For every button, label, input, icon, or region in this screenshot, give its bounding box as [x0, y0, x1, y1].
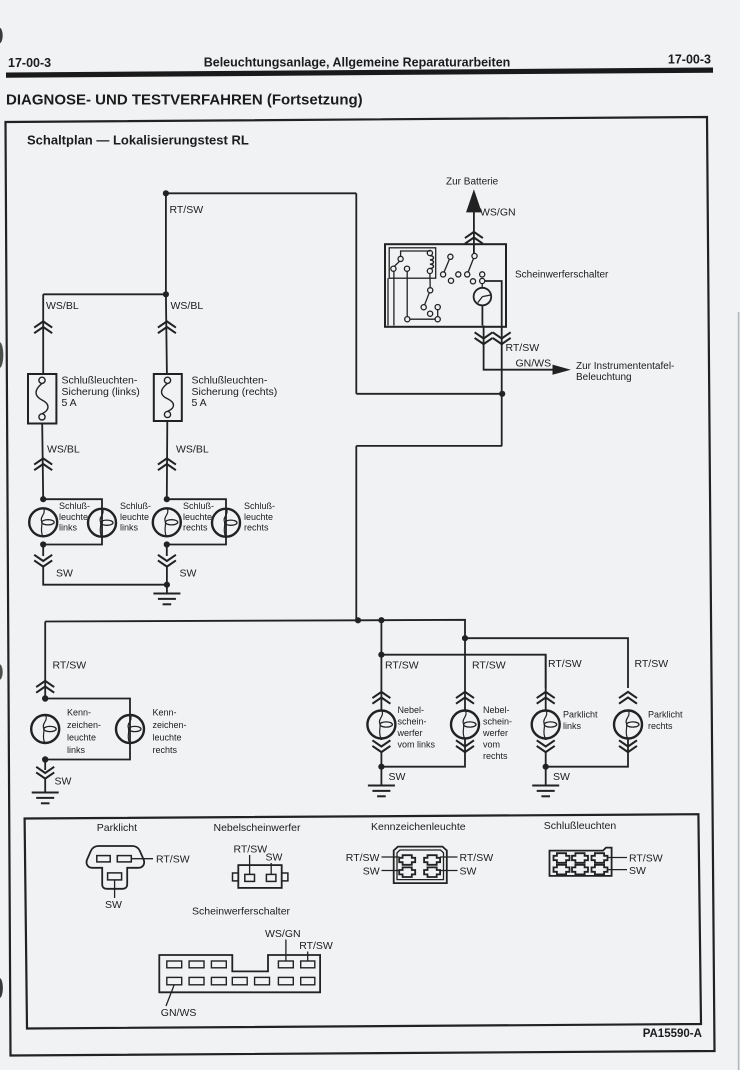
relay contact circles: [398, 256, 403, 261]
connector chevron down nebel links: [372, 740, 390, 752]
connector switch bottom pin 2: [189, 977, 204, 984]
svg-text:WS/GN: WS/GN: [480, 207, 516, 219]
wire nebel ground stem: [380, 767, 382, 786]
wire jog lower horizontal: [356, 445, 502, 447]
node lamp1 bottom: [40, 541, 46, 547]
lead kennzeichen left RT/SW: [382, 856, 400, 858]
connector schluss pin 5: [572, 865, 588, 875]
svg-text:Sicherung (links): Sicherung (links): [62, 386, 140, 398]
lamp parklicht links: [532, 711, 560, 739]
connector chevron nebel rechts: [456, 692, 474, 704]
wire branch2 to ground: [166, 566, 168, 593]
connector schluss pin 6: [592, 865, 608, 875]
svg-text:Kenn-: Kenn-: [67, 708, 91, 718]
relay top wire: [401, 251, 430, 257]
connector chevron parklicht links: [537, 692, 555, 704]
svg-text:SW: SW: [553, 771, 570, 783]
connector chevron below F1: [34, 458, 52, 470]
inner connector frame: [25, 814, 701, 1028]
wire branch1 to ground bus: [43, 566, 167, 585]
connector nebel housing: [238, 865, 281, 888]
node jog: [499, 391, 505, 397]
arrow to battery: [467, 192, 480, 231]
connector schluss pin 2: [572, 853, 588, 863]
connector parklicht housing: [87, 846, 145, 889]
connector nebel pin 1: [245, 874, 255, 881]
connector switch housing: [159, 955, 320, 992]
wire parklicht bottom: [546, 738, 628, 766]
svg-text:17-00-3: 17-00-3: [668, 53, 711, 67]
svg-text:PA15590-A: PA15590-A: [643, 1028, 702, 1040]
svg-text:WS/BL: WS/BL: [47, 444, 80, 456]
lamp kennzeichen links: [31, 715, 59, 743]
node ground bus: [164, 582, 170, 588]
svg-text:RT/SW: RT/SW: [156, 854, 190, 866]
connector chevron kennzeichen: [36, 681, 54, 693]
wire to panel lamp: [481, 284, 483, 288]
svg-text:Sicherung (rechts): Sicherung (rechts): [192, 386, 278, 398]
wire switch left exit: [483, 326, 485, 346]
svg-text:Schlußleuchten: Schlußleuchten: [544, 820, 617, 832]
lamp kennzeichen rechts: [116, 715, 144, 743]
node branch link: [163, 291, 169, 297]
svg-text:links: links: [563, 721, 582, 731]
svg-text:vom: vom: [483, 740, 500, 750]
svg-text:werfer: werfer: [482, 728, 508, 738]
svg-text:Schluß-: Schluß-: [59, 501, 90, 511]
svg-text:DIAGNOSE- UND TESTVERFAHREN (F: DIAGNOSE- UND TESTVERFAHREN (Fortsetzung…: [6, 92, 363, 109]
wire parklicht links drop: [545, 655, 547, 711]
svg-text:RT/SW: RT/SW: [385, 660, 419, 672]
svg-text:Kennzeichenleuchte: Kennzeichenleuchte: [371, 821, 466, 833]
connector switch top pin 3: [211, 961, 226, 968]
binder hole 2: [0, 342, 3, 368]
binder hole 4: [0, 978, 3, 998]
connector schluss pin 3: [592, 853, 608, 863]
lead parklicht RT/SW: [132, 858, 154, 860]
wire bus1: [45, 620, 465, 638]
connector switch bottom pin 6: [278, 977, 293, 984]
contact pair bottom right: [435, 317, 440, 322]
lamp pair kennzeichen loop: [45, 699, 130, 771]
lead kennzeichen left SW: [382, 870, 400, 872]
connector schluss pin 4: [554, 865, 570, 875]
svg-text:5 A: 5 A: [192, 397, 207, 409]
svg-text:RT/SW: RT/SW: [299, 940, 333, 952]
svg-text:RT/SW: RT/SW: [629, 853, 663, 865]
lead parklicht SW: [114, 880, 116, 898]
right output wire: [485, 281, 502, 326]
fuse F1: [28, 374, 56, 424]
connector parklicht pin 1: [97, 856, 110, 862]
svg-text:Nebel-: Nebel-: [398, 705, 425, 715]
node parklicht ground: [543, 764, 549, 770]
svg-text:Schluß-: Schluß-: [183, 501, 214, 511]
svg-text:GN/WS: GN/WS: [516, 358, 552, 370]
connector nebel tab right: [282, 873, 288, 881]
svg-text:schein-: schein-: [483, 717, 512, 727]
connector chevron branch1 upper: [34, 321, 52, 333]
svg-text:Zur Instrumententafel-: Zur Instrumententafel-: [576, 361, 674, 372]
connector switch top pin 1: [167, 961, 182, 968]
wire parklicht ground stem: [545, 767, 547, 786]
wire branch2 fuse to lamps: [166, 421, 169, 499]
svg-text:SW: SW: [460, 866, 477, 878]
svg-text:RT/SW: RT/SW: [346, 852, 380, 864]
wire RT/SW switch drop: [501, 345, 503, 446]
wire left column vertical: [165, 193, 167, 294]
wire bus3: [381, 655, 545, 688]
node kennzeichen top: [42, 695, 48, 701]
relay coil: [427, 250, 432, 255]
connector switch bottom pin 5: [255, 977, 270, 984]
wire branch link horizontal: [43, 293, 166, 295]
wire nebel links drop: [380, 620, 382, 711]
connector chevron down nebel rechts: [456, 740, 474, 752]
svg-text:RT/SW: RT/SW: [170, 204, 204, 216]
connector nebel tab left: [233, 873, 239, 881]
wire top RT/SW horizontal: [166, 192, 356, 194]
svg-text:Zur Batterie: Zur Batterie: [446, 177, 499, 188]
svg-text:links: links: [59, 523, 78, 533]
svg-text:WS/BL: WS/BL: [46, 300, 79, 312]
wire branch1 upper: [42, 294, 44, 374]
svg-text:Parklicht: Parklicht: [97, 822, 137, 834]
svg-text:Scheinwerferschalter: Scheinwerferschalter: [192, 906, 291, 918]
svg-text:RT/SW: RT/SW: [548, 658, 582, 670]
svg-text:Parklicht: Parklicht: [563, 710, 598, 720]
wire branch2 upper: [166, 294, 167, 374]
connector chevron below F2: [158, 458, 176, 470]
connector switch top pin 5: [301, 961, 315, 968]
svg-text:WS/GN: WS/GN: [265, 928, 301, 940]
wire coil to lower contact: [429, 274, 431, 288]
wire switch right exit: [501, 326, 503, 346]
lamp pair Schlussleuchte rechts loop: [167, 499, 226, 556]
svg-text:SW: SW: [266, 852, 283, 864]
connector kennzeichen pin 1: [399, 855, 415, 865]
connector switch bottom pin 4: [232, 977, 247, 984]
lamp Schlussleuchte rechts L3: [153, 508, 181, 536]
svg-text:SW: SW: [363, 866, 380, 878]
wire GN/WS to panel: [484, 343, 553, 370]
svg-text:SW: SW: [180, 568, 197, 580]
lead schluss SW: [608, 869, 628, 871]
binder hole 3: [0, 664, 3, 680]
connector switch bottom pin 3: [211, 977, 226, 984]
svg-text:zeichen-: zeichen-: [67, 720, 101, 730]
lamp pair Schlussleuchte links loop: [43, 499, 102, 556]
wire kennzeichen ground: [44, 778, 46, 792]
connector chevron battery: [465, 232, 483, 244]
svg-text:SW: SW: [629, 865, 646, 877]
node bus feed: [355, 617, 361, 623]
connector chevron down branch1: [34, 555, 52, 567]
svg-text:Schaltplan — Lokalisierungstes: Schaltplan — Lokalisierungstest RL: [27, 133, 249, 148]
svg-text:RT/SW: RT/SW: [234, 844, 268, 856]
svg-text:werfer: werfer: [397, 728, 423, 738]
svg-text:rechts: rechts: [648, 721, 673, 731]
svg-text:leuchte: leuchte: [183, 512, 212, 522]
connector chevron down switch right: [493, 332, 511, 344]
lower slant contact: [428, 288, 433, 293]
svg-text:schein-: schein-: [398, 717, 427, 727]
svg-text:Beleuchtungsanlage, Allgemeine: Beleuchtungsanlage, Allgemeine Reparatur…: [204, 56, 511, 70]
svg-text:vom links: vom links: [398, 740, 436, 750]
wire feed vertical lower: [355, 446, 357, 620]
svg-text:rechts: rechts: [483, 751, 508, 761]
svg-text:rechts: rechts: [153, 745, 178, 755]
feed contact M2: [472, 253, 477, 258]
svg-text:rechts: rechts: [183, 523, 208, 533]
svg-text:Scheinwerferschalter: Scheinwerferschalter: [515, 270, 609, 281]
lamp parklicht rechts: [614, 711, 642, 739]
connector chevron down kennzeichen: [36, 767, 54, 779]
svg-text:Schlußleuchten-: Schlußleuchten-: [62, 375, 138, 387]
svg-text:RT/SW: RT/SW: [472, 660, 506, 672]
connector chevron parklicht rechts: [619, 692, 637, 704]
svg-text:SW: SW: [55, 776, 72, 788]
svg-text:leuchte: leuchte: [153, 733, 182, 743]
bottom horizontal link: [410, 318, 435, 320]
lamp to box bottom: [481, 305, 483, 325]
svg-text:Schluß-: Schluß-: [244, 501, 275, 511]
wire branch1 fuse to lamps: [42, 424, 43, 500]
switch internals: [388, 248, 502, 326]
ground G3: [368, 786, 395, 797]
lead switch RT/SW: [307, 952, 309, 962]
relay armature: [394, 261, 399, 266]
connector kennzeichen pin 4: [424, 867, 440, 877]
lead nebel RT/SW: [249, 855, 251, 874]
svg-text:Nebel-: Nebel-: [483, 705, 510, 715]
svg-text:leuchte: leuchte: [120, 512, 149, 522]
svg-text:GN/WS: GN/WS: [161, 1007, 197, 1019]
panel illumination lamp: [474, 288, 492, 306]
connector parklicht pin 2: [117, 856, 131, 862]
op switch box U1: [385, 244, 506, 327]
node bus2: [462, 635, 468, 641]
wire from relay right contact down: [406, 271, 408, 316]
contact circle lower left: [405, 317, 410, 322]
lamp feed circles: [470, 279, 475, 284]
middle contact extra circles: [456, 272, 461, 277]
svg-text:RT/SW: RT/SW: [635, 658, 669, 670]
lead kennzeichen right SW: [440, 870, 458, 872]
lead kennzeichen right RT/SW: [440, 856, 458, 858]
connector parklicht pin 3: [108, 873, 122, 880]
connector chevron down switch left: [475, 332, 493, 344]
wire bus2: [465, 638, 628, 688]
node lamp2 top: [164, 496, 170, 502]
svg-text:WS/BL: WS/BL: [176, 444, 209, 456]
node bus nebel links: [378, 617, 384, 623]
connector chevron nebel links: [372, 692, 390, 704]
node nebel ground: [378, 764, 384, 770]
svg-text:leuchte: leuchte: [244, 512, 273, 522]
lead schluss RT/SW: [608, 857, 628, 859]
lead nebel SW: [270, 863, 272, 874]
wire from relay left contact down: [387, 278, 389, 325]
connector kennzeichen pin 3: [399, 867, 415, 877]
connector chevron branch2 upper: [158, 321, 176, 333]
svg-text:RT/SW: RT/SW: [506, 342, 540, 354]
svg-text:SW: SW: [389, 771, 406, 783]
svg-text:Schluß-: Schluß-: [120, 501, 151, 511]
svg-text:WS/BL: WS/BL: [171, 300, 204, 312]
middle slant contact M1: [448, 254, 453, 259]
svg-text:17-00-3: 17-00-3: [8, 56, 51, 70]
svg-text:leuchte: leuchte: [59, 512, 88, 522]
svg-text:SW: SW: [56, 568, 73, 580]
svg-text:links: links: [120, 523, 139, 533]
wire kennzeichen drop: [44, 622, 46, 699]
wire nebel links bottom: [381, 738, 465, 766]
wire jog horizontal: [356, 393, 502, 395]
connector switch bottom pin 1: [167, 977, 182, 984]
lead switch GN/WS: [166, 985, 174, 1006]
fuse F2: [154, 374, 182, 421]
node bus3: [378, 652, 384, 658]
connector chevron down parklicht links: [537, 740, 555, 752]
ground G4: [532, 786, 559, 797]
svg-text:Nebelscheinwerfer: Nebelscheinwerfer: [214, 822, 301, 834]
ground G2: [32, 793, 59, 804]
connector schluss housing: [550, 848, 612, 876]
connector schluss pin 1: [554, 853, 570, 863]
binder hole 1: [0, 28, 3, 44]
svg-text:Kenn-: Kenn-: [153, 708, 177, 718]
arrow to instrument panel: [553, 365, 569, 374]
connector kennzeichen housing: [394, 847, 447, 884]
wire nebel rechts drop: [464, 638, 466, 711]
svg-text:Schlußleuchten-: Schlußleuchten-: [192, 375, 268, 387]
lamp Schlussleuchte rechts L4: [212, 509, 240, 537]
node top line left: [163, 190, 169, 196]
lamp Schlussleuchte links L2: [88, 509, 116, 537]
scan edge line right: [738, 312, 740, 1070]
lamp nebel links: [367, 711, 395, 739]
svg-text:RT/SW: RT/SW: [460, 852, 494, 864]
connector switch top pin 2: [189, 961, 204, 968]
svg-text:Beleuchtung: Beleuchtung: [576, 372, 632, 383]
ground G1: [153, 594, 180, 605]
svg-text:RT/SW: RT/SW: [53, 660, 87, 672]
svg-text:links: links: [67, 745, 86, 755]
svg-text:rechts: rechts: [244, 523, 269, 533]
wire into switch: [473, 232, 475, 253]
svg-text:5 A: 5 A: [62, 397, 77, 409]
node lamp2 bottom: [164, 541, 170, 547]
svg-text:leuchte: leuchte: [67, 733, 96, 743]
svg-text:Parklicht: Parklicht: [648, 710, 683, 720]
connector chevron down branch2: [158, 555, 176, 567]
connector switch top pin 4: [278, 961, 293, 968]
relay sub box: [389, 248, 436, 278]
lead switch WS/GN: [285, 940, 287, 962]
connector chevron down parklicht rechts: [619, 740, 637, 752]
connector nebel pin 2: [266, 874, 276, 881]
lamp nebel rechts: [451, 711, 479, 739]
lamp Schlussleuchte links L1: [29, 508, 57, 536]
node lamp1 top: [40, 496, 46, 502]
wire feed vertical upper: [355, 193, 357, 393]
header rule bar: [6, 68, 713, 78]
svg-text:zeichen-: zeichen-: [153, 720, 187, 730]
connector switch bottom pin 7: [301, 977, 315, 984]
svg-text:SW: SW: [105, 899, 122, 911]
node kennzeichen bottom: [42, 756, 48, 762]
connector kennzeichen pin 2: [424, 855, 440, 865]
connector kennzeichen inner: [397, 850, 444, 880]
